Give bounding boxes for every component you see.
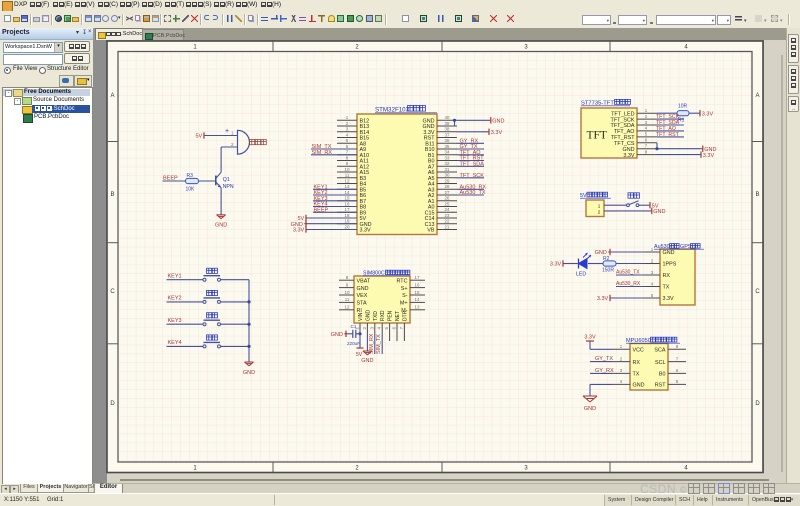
U5 bottom pins 1-7 with pin numbers bbox=[355, 310, 409, 342]
svg-text:Au530_TX: Au530_TX bbox=[460, 190, 486, 196]
svg-text:10: 10 bbox=[345, 290, 350, 295]
svg-text:TFT_RST: TFT_RST bbox=[656, 132, 680, 138]
svg-text:3.3V: 3.3V bbox=[584, 335, 596, 341]
wire GND bar to C1 bbox=[346, 333, 353, 335]
svg-text:12: 12 bbox=[345, 305, 350, 310]
wire SW3 to GND bus bbox=[221, 323, 250, 325]
svg-text:29: 29 bbox=[445, 178, 450, 183]
svg-text:M+: M+ bbox=[400, 301, 408, 307]
wire net Au530_TX from U1 right bbox=[457, 194, 484, 196]
svg-text:S+: S+ bbox=[401, 286, 408, 292]
power port 3.3V (U2) bbox=[701, 151, 714, 158]
resistor R3 bbox=[186, 178, 199, 183]
junction key bus bbox=[247, 345, 250, 348]
ground bar GND (U3) bbox=[595, 249, 610, 256]
wire net GY_TX to U4 RX bbox=[590, 361, 612, 363]
U4 right pins 8-5 with pin numbers bbox=[654, 344, 686, 389]
svg-text:28: 28 bbox=[445, 184, 450, 189]
wire KEY2 to switch bbox=[167, 301, 204, 303]
wire net KEY3 to U1 bbox=[313, 200, 357, 202]
svg-text:GND: GND bbox=[331, 332, 343, 338]
svg-text:GND: GND bbox=[215, 223, 227, 229]
net label BEEP bbox=[314, 207, 329, 213]
svg-text:VCC: VCC bbox=[633, 348, 644, 354]
svg-text:RX: RX bbox=[663, 273, 671, 279]
ground arrow GND (keys) bbox=[245, 362, 254, 366]
power port 5V down (U5) bbox=[356, 348, 364, 358]
svg-text:PEN: PEN bbox=[388, 310, 394, 321]
net label TFT_SCK (U1 right) bbox=[460, 173, 485, 179]
wire net TFT_RST from U1 right bbox=[457, 160, 484, 162]
module U3 Au530 BeiDou GPS bbox=[660, 249, 695, 305]
net label Au530_TX (U3) bbox=[616, 270, 640, 276]
svg-text:KEY4: KEY4 bbox=[168, 340, 182, 346]
svg-text:BEEP: BEEP bbox=[314, 207, 329, 213]
wire U5 RXD down bbox=[381, 334, 383, 354]
svg-text:39: 39 bbox=[445, 121, 450, 126]
svg-text:27: 27 bbox=[445, 190, 450, 195]
wire 5V to U1 pin18 bbox=[306, 217, 357, 219]
net label TFT_SDA (U2) bbox=[656, 120, 680, 126]
svg-text:VIN: VIN bbox=[358, 312, 364, 321]
junction key bus bbox=[247, 300, 250, 303]
ground bar GND (U1 right) bbox=[489, 117, 504, 124]
wire R3 to Q1 base bbox=[199, 180, 216, 182]
svg-text:19: 19 bbox=[345, 219, 350, 224]
net label KEY3 bbox=[168, 318, 182, 324]
net label GY_TX (U4) bbox=[595, 356, 613, 362]
svg-text:10: 10 bbox=[345, 167, 350, 172]
svg-text:GND: GND bbox=[365, 310, 371, 322]
svg-text:11: 11 bbox=[345, 173, 350, 178]
U5 title SIM800C bbox=[363, 270, 410, 276]
resistor R2 bbox=[603, 261, 616, 266]
ground bar GND (U1 left) bbox=[291, 221, 306, 228]
wire U3 pin1 to GND bar bbox=[610, 251, 645, 253]
net label KEY4 bbox=[168, 340, 182, 346]
net label TFT_RST (U2) bbox=[656, 132, 680, 138]
J1 title 5V supply port bbox=[580, 192, 611, 199]
wire LED1 to 3.3V bbox=[563, 263, 579, 265]
svg-text:DTR: DTR bbox=[402, 310, 408, 321]
svg-text:12: 12 bbox=[345, 178, 350, 183]
svg-text:20: 20 bbox=[345, 224, 350, 229]
svg-text:TFT_SCK: TFT_SCK bbox=[460, 173, 485, 179]
wire net Au530_TX to U3 RX bbox=[616, 274, 645, 276]
svg-text:C: C bbox=[755, 289, 760, 295]
power port 3.3V (U1 right) bbox=[489, 129, 502, 136]
U5 left pins 8-12 with pin numbers bbox=[339, 275, 371, 314]
svg-text:11: 11 bbox=[345, 297, 350, 302]
U4 left pins 1-4 with pin numbers bbox=[612, 344, 645, 389]
net label TFT_SDA (U1 right) bbox=[460, 161, 485, 167]
svg-text:3.3V: 3.3V bbox=[702, 111, 714, 117]
junction node pin39/40 bbox=[453, 119, 456, 122]
wire net BEEP to R3 bbox=[163, 180, 186, 182]
power port 5V (J1) bbox=[650, 202, 659, 209]
wire KEY4 to switch bbox=[167, 345, 204, 347]
wire 5V to buzzer pin1 bbox=[204, 135, 238, 137]
svg-text:3.3V: 3.3V bbox=[623, 153, 634, 159]
net label KEY1 bbox=[168, 274, 182, 280]
net label TFT_AO (U1 right) bbox=[460, 150, 482, 156]
GND label (keys) bbox=[243, 370, 255, 376]
svg-text:VEX: VEX bbox=[357, 293, 368, 299]
net label TFT_RST (U1 right) bbox=[460, 156, 485, 162]
svg-text:18: 18 bbox=[345, 213, 350, 218]
wire net GY_RX to U4 TX bbox=[590, 372, 612, 374]
wire net SIM_RX to U1 bbox=[311, 154, 357, 156]
wire net KEY4 to U1 bbox=[313, 206, 357, 208]
switch S1 bbox=[627, 201, 639, 207]
svg-text:C: C bbox=[110, 289, 115, 295]
svg-text:17: 17 bbox=[345, 207, 350, 212]
junction key bus bbox=[247, 323, 250, 326]
svg-text:STA: STA bbox=[357, 301, 367, 307]
buzzer label (feng ming qi) bbox=[250, 140, 267, 145]
wire Q1 emitter to GND bbox=[220, 188, 222, 215]
wire net SIM_TX to U1 bbox=[311, 148, 357, 150]
svg-text:3.3V: 3.3V bbox=[293, 228, 305, 234]
wire net Au530_RX from U1 right bbox=[457, 188, 484, 190]
wire GND to U1 pin19 bbox=[306, 223, 357, 225]
wire net TFT_RST from U2 bbox=[657, 136, 684, 138]
wire J1 pin2 to GND bbox=[604, 210, 650, 212]
GND label (Q1) bbox=[215, 223, 227, 229]
svg-text:R3: R3 bbox=[187, 173, 194, 179]
net label SIM_TX bbox=[312, 144, 332, 150]
R2 value 150R bbox=[602, 268, 614, 274]
wire SW4 to GND bus bbox=[221, 345, 250, 347]
wire net TFT_SCK from U1 right bbox=[457, 177, 484, 179]
svg-text:31: 31 bbox=[445, 167, 450, 172]
svg-text:220uF: 220uF bbox=[347, 341, 360, 346]
wire net KEY1 to U1 bbox=[313, 188, 357, 190]
svg-text:Q1: Q1 bbox=[223, 177, 230, 183]
svg-text:TFT: TFT bbox=[587, 130, 607, 142]
wire net GY_TX from U1 right bbox=[457, 148, 484, 150]
thin scrollbar line bbox=[120, 479, 769, 481]
svg-text:3.3V: 3.3V bbox=[550, 262, 562, 268]
svg-text:SIM_RX: SIM_RX bbox=[312, 150, 333, 156]
svg-text:2: 2 bbox=[598, 209, 601, 214]
svg-text:KEY2: KEY2 bbox=[168, 296, 182, 302]
ground bar GND (J1) bbox=[650, 208, 665, 215]
svg-text:16: 16 bbox=[345, 201, 350, 206]
net label GY_TX (U1 right) bbox=[460, 144, 478, 150]
wire R1 to 3.3V bbox=[689, 112, 700, 114]
wire 3.3V to U1 pin20 bbox=[306, 229, 357, 231]
svg-text:NPN: NPN bbox=[223, 184, 234, 190]
svg-text:LED: LED bbox=[576, 272, 586, 278]
wire KEY1 to switch bbox=[167, 279, 204, 281]
svg-text:TXD: TXD bbox=[373, 311, 379, 321]
svg-text:23: 23 bbox=[445, 213, 450, 218]
svg-text:GND: GND bbox=[633, 383, 645, 389]
svg-text:D: D bbox=[110, 401, 115, 407]
svg-text:SIM_TX: SIM_TX bbox=[376, 334, 382, 354]
svg-text:VBAT: VBAT bbox=[357, 278, 371, 284]
svg-text:36: 36 bbox=[445, 138, 450, 143]
ground bar GND (C1) bbox=[331, 331, 346, 338]
net label SIM_RX bbox=[312, 150, 333, 156]
R3 value 10K bbox=[186, 187, 196, 193]
switch label (kai guan) bbox=[628, 193, 639, 198]
U2 title ST7735-TFT bbox=[581, 99, 630, 106]
svg-text:GND: GND bbox=[653, 209, 665, 215]
wire U3 pin2 to R2 bbox=[616, 263, 645, 265]
svg-text:15: 15 bbox=[345, 196, 350, 201]
connector J1 5V supply bbox=[586, 200, 604, 217]
net label SIM_RX (U5, vertical) bbox=[369, 333, 375, 354]
svg-text:SCA: SCA bbox=[654, 348, 665, 354]
svg-text:10K: 10K bbox=[186, 187, 196, 193]
GND label (U4) bbox=[584, 406, 596, 412]
svg-text:RX: RX bbox=[633, 360, 641, 366]
svg-text:3.3V: 3.3V bbox=[703, 153, 715, 159]
ground arrow GND (Q1) bbox=[217, 215, 226, 219]
svg-text:30: 30 bbox=[445, 173, 450, 178]
LED LED1 bbox=[579, 253, 592, 269]
net label TFT_SCK (U2) bbox=[656, 114, 680, 120]
push button SW1 (an jian) bbox=[203, 268, 221, 281]
svg-text:35: 35 bbox=[445, 144, 450, 149]
svg-text:VB: VB bbox=[427, 228, 435, 234]
svg-text:150R: 150R bbox=[602, 268, 614, 274]
wire U2 pin6 TFT_CS to GND net bbox=[656, 143, 658, 149]
svg-text:13: 13 bbox=[415, 305, 420, 310]
wire U2 pin1 to R1 bbox=[657, 112, 677, 114]
svg-text:TX: TX bbox=[663, 285, 670, 291]
svg-text:Au530_RX: Au530_RX bbox=[616, 281, 641, 287]
wire U5 VIN down to 5V bbox=[359, 334, 361, 348]
svg-text:14: 14 bbox=[345, 190, 350, 195]
wire net Au530_RX to U3 TX bbox=[616, 286, 645, 288]
svg-text:KEY3: KEY3 bbox=[168, 318, 182, 324]
svg-text:GND: GND bbox=[663, 250, 675, 256]
svg-text:15: 15 bbox=[415, 290, 420, 295]
svg-text:37: 37 bbox=[445, 132, 450, 137]
push button SW3 (an jian) bbox=[203, 313, 221, 326]
push button SW2 (an jian) bbox=[203, 290, 221, 303]
wire C1 to VIN bbox=[356, 333, 360, 335]
svg-text:S-: S- bbox=[402, 293, 408, 299]
svg-text:3.3V: 3.3V bbox=[491, 130, 503, 136]
svg-text:3.3V: 3.3V bbox=[597, 296, 609, 302]
net label KEY2 bbox=[314, 190, 328, 196]
svg-text:40: 40 bbox=[445, 115, 450, 120]
svg-text:24: 24 bbox=[445, 207, 450, 212]
wire U2 pin7 GND to GND bar bbox=[657, 148, 701, 150]
wire net TFT_AO from U2 bbox=[657, 130, 684, 132]
U1 left pins 1-20 with pin numbers bbox=[337, 115, 372, 234]
module U5 SIM800C SMS bbox=[354, 276, 410, 323]
svg-text:3.3V: 3.3V bbox=[663, 296, 674, 302]
U1 title STM32F103 bbox=[375, 106, 437, 114]
wire U4 GND down bbox=[590, 384, 612, 396]
svg-text:BEEP: BEEP bbox=[163, 176, 178, 182]
svg-text:GND: GND bbox=[361, 358, 373, 364]
svg-text:RXD: RXD bbox=[380, 310, 386, 321]
wire SW1 to GND bus bbox=[221, 279, 250, 281]
svg-text:10R: 10R bbox=[678, 104, 688, 110]
svg-text:C1: C1 bbox=[351, 324, 357, 329]
ground bar GND (U2) bbox=[701, 146, 716, 153]
junction VIN/C1 bbox=[358, 332, 361, 335]
svg-text:25: 25 bbox=[445, 201, 450, 206]
svg-text:GY_TX: GY_TX bbox=[595, 356, 613, 362]
wire keys GND bus bbox=[248, 280, 250, 362]
power port 5V (buzzer) bbox=[195, 132, 204, 139]
wire R2 to LED1 bbox=[588, 263, 603, 265]
op-amp U1 STM32F103 core board bbox=[357, 114, 437, 235]
svg-text:GND: GND bbox=[243, 370, 255, 376]
net label BEEP bbox=[163, 176, 178, 182]
U1 right pins 40-21 with pin numbers bbox=[423, 115, 457, 234]
R3 designator bbox=[187, 173, 194, 179]
svg-text:GY_RX: GY_RX bbox=[595, 368, 614, 374]
svg-text:D: D bbox=[755, 401, 760, 407]
buzzer LS1 bbox=[225, 128, 249, 154]
wire U5 TXD down bbox=[374, 334, 376, 354]
svg-text:33: 33 bbox=[445, 155, 450, 160]
wire U5 GND pin2 down bbox=[366, 334, 368, 351]
C1 value 220uF bbox=[347, 341, 360, 346]
svg-text:SCL: SCL bbox=[655, 360, 666, 366]
net label TFT_AO (U2) bbox=[656, 126, 676, 132]
wire U1 pin39 riser bbox=[454, 120, 456, 126]
capacitor C1 220uF bbox=[351, 324, 357, 338]
wire J1 pin1 to switch bbox=[604, 204, 627, 206]
power port 5V (U1 left) bbox=[297, 215, 306, 222]
junction TFT_CS/GND bbox=[655, 147, 658, 150]
wire buzzer pin2 to Q1 collector bbox=[221, 147, 237, 172]
R2 designator bbox=[603, 256, 610, 262]
wire SW2 to GND bus bbox=[221, 301, 250, 303]
net label KEY4 bbox=[314, 202, 328, 208]
U4 title MPU6050 sensor bbox=[626, 337, 680, 344]
svg-text:22: 22 bbox=[445, 219, 450, 224]
net label KEY2 bbox=[168, 296, 182, 302]
svg-text:26: 26 bbox=[445, 196, 450, 201]
net label Au530_TX (U1 right) bbox=[460, 190, 486, 196]
wire net GY_RX from U1 right bbox=[457, 142, 484, 144]
GND label (U5) bbox=[361, 358, 373, 364]
svg-text:34: 34 bbox=[445, 150, 450, 155]
net label KEY1 bbox=[314, 184, 328, 190]
svg-text:R2: R2 bbox=[603, 256, 610, 262]
module U4 MPU6050 angle sensor bbox=[630, 344, 668, 391]
ground arrow GND (U4) bbox=[583, 396, 597, 402]
wire net TFT_SDA from U2 bbox=[657, 124, 684, 126]
op-amp U2 ST7735 TFT display bbox=[581, 108, 637, 158]
net label Au530_RX (U1 right) bbox=[460, 184, 487, 190]
svg-text:21: 21 bbox=[445, 224, 450, 229]
svg-text:GND: GND bbox=[492, 119, 504, 125]
svg-text:14: 14 bbox=[415, 297, 420, 302]
svg-text:SIM_RX: SIM_RX bbox=[369, 333, 375, 354]
wire net BEEP to U1 bbox=[313, 211, 357, 213]
wire net TFT_SDA from U1 right bbox=[457, 165, 484, 167]
ground arrow GND (U5) bbox=[363, 351, 372, 355]
svg-text:16: 16 bbox=[415, 282, 420, 287]
net label Au530_RX (U3) bbox=[616, 281, 641, 287]
wire U3 pin5 to 3.3V bbox=[610, 297, 645, 299]
wire U2 pin8 to 3.3V bbox=[657, 154, 701, 156]
svg-text:17: 17 bbox=[415, 275, 420, 280]
wire net TFT_SCK from U2 bbox=[657, 118, 684, 120]
wire KEY3 to switch bbox=[167, 323, 204, 325]
svg-text:GND: GND bbox=[584, 406, 596, 412]
wire U1 pin40 to GND bar bbox=[457, 119, 489, 121]
power port 3.3V (R1) bbox=[700, 110, 713, 117]
power port 3.3V (U3) bbox=[597, 295, 610, 302]
net label GY_RX (U1 right) bbox=[460, 138, 479, 144]
push button SW4 (an jian) bbox=[203, 335, 221, 348]
LED1 label bbox=[576, 272, 586, 278]
wire U1 pin38 to 3.3V bbox=[457, 131, 489, 133]
U3 title Au530 GPS bbox=[654, 244, 704, 250]
svg-text:Au530_TX: Au530_TX bbox=[616, 270, 640, 276]
wire U4 VCC to 3.3V bbox=[590, 341, 612, 349]
net label SIM_TX (U5, vertical) bbox=[376, 334, 382, 354]
svg-text:B0: B0 bbox=[659, 372, 666, 378]
svg-text:GND: GND bbox=[357, 286, 369, 292]
svg-text:38: 38 bbox=[445, 127, 450, 132]
transistor Q1 NPN bbox=[216, 172, 234, 190]
U3 pins 1-5 with pin numbers bbox=[645, 247, 677, 302]
resistor R1 bbox=[677, 111, 689, 116]
power port 3.3V (U1 left) bbox=[293, 226, 306, 233]
svg-text:RTC: RTC bbox=[397, 278, 408, 284]
svg-text:A: A bbox=[110, 93, 114, 99]
wire net KEY2 to U1 bbox=[313, 194, 357, 196]
R1 designator bbox=[678, 118, 685, 124]
power port 3.3V (LED1) bbox=[550, 260, 563, 267]
svg-text:13: 13 bbox=[345, 184, 350, 189]
svg-text:A: A bbox=[755, 93, 759, 99]
wire net TFT_AO from U1 right bbox=[457, 154, 484, 156]
svg-text:STM32F103: STM32F103 bbox=[375, 107, 410, 114]
net label KEY3 bbox=[314, 196, 328, 202]
U2 pins 1-8 with pin numbers bbox=[611, 108, 657, 159]
svg-text:TX: TX bbox=[633, 372, 640, 378]
R1 value 10R bbox=[678, 104, 688, 110]
net label GY_RX (U4) bbox=[595, 368, 614, 374]
svg-text:KEY1: KEY1 bbox=[168, 274, 182, 280]
svg-text:1: 1 bbox=[598, 204, 601, 209]
svg-text:32: 32 bbox=[445, 161, 450, 166]
wire switch to 5V bbox=[639, 204, 650, 206]
svg-text:1PPS: 1PPS bbox=[663, 262, 677, 268]
svg-text:5V: 5V bbox=[195, 134, 202, 140]
svg-text:NET: NET bbox=[395, 311, 401, 321]
svg-text:TFT_SDA: TFT_SDA bbox=[460, 161, 485, 167]
svg-text:B: B bbox=[110, 192, 114, 198]
svg-text:3.3V: 3.3V bbox=[360, 228, 371, 234]
power port 3.3V (U4) bbox=[584, 335, 596, 341]
svg-text:B: B bbox=[755, 192, 759, 198]
svg-text:RST: RST bbox=[655, 383, 666, 389]
svg-text:+: + bbox=[225, 128, 229, 135]
U5 right pins 17-13 with pin numbers bbox=[397, 275, 425, 314]
